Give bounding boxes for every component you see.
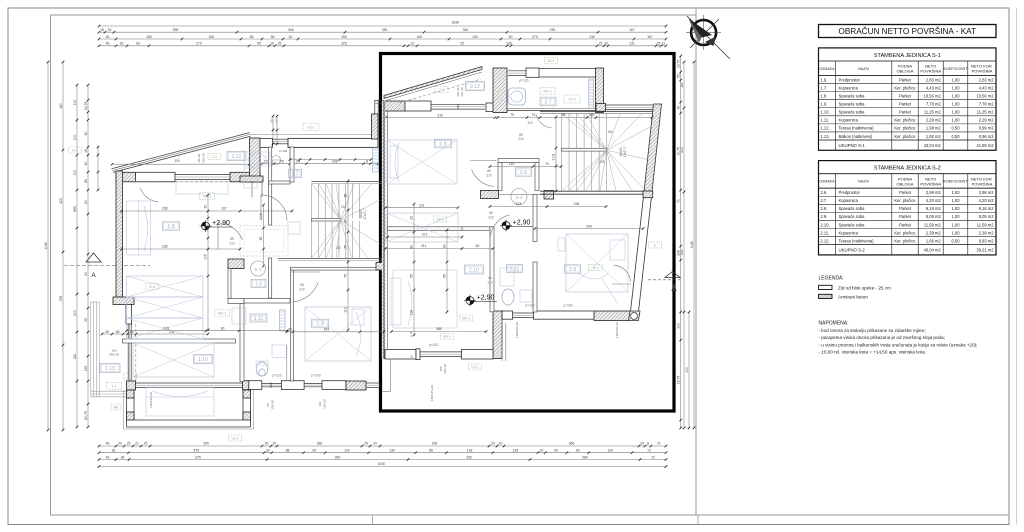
svg-text:254: 254 bbox=[586, 224, 592, 228]
svg-text:Parket: Parket bbox=[899, 110, 912, 115]
svg-text:1.8: 1.8 bbox=[167, 224, 174, 230]
svg-text:206: 206 bbox=[332, 160, 338, 164]
svg-text:60: 60 bbox=[554, 449, 558, 453]
svg-text:Zid od blok opeke - 25 cm: Zid od blok opeke - 25 cm bbox=[838, 285, 891, 290]
svg-text:VZ-1: VZ-1 bbox=[547, 59, 554, 63]
svg-text:21: 21 bbox=[135, 442, 139, 446]
svg-text:105: 105 bbox=[204, 254, 208, 260]
svg-text:4,43 m2: 4,43 m2 bbox=[979, 85, 995, 90]
svg-text:2,03: 2,03 bbox=[552, 154, 556, 161]
svg-text:Terasa (natkrivena): Terasa (natkrivena) bbox=[839, 238, 875, 243]
svg-text:2,83 m2: 2,83 m2 bbox=[926, 77, 942, 82]
svg-text:4,20 m2: 4,20 m2 bbox=[926, 198, 942, 203]
svg-text:- kod otvora za stolariju pri: - kod otvora za stolariju prikazane su z… bbox=[819, 328, 926, 333]
svg-text:85: 85 bbox=[84, 179, 88, 183]
svg-text:10: 10 bbox=[411, 42, 415, 46]
svg-text:85: 85 bbox=[487, 169, 491, 173]
svg-text:155: 155 bbox=[84, 366, 88, 372]
svg-text:100+20: 100+20 bbox=[271, 400, 275, 410]
svg-text:10: 10 bbox=[604, 42, 608, 46]
svg-text:230: 230 bbox=[550, 28, 556, 32]
svg-text:81: 81 bbox=[112, 449, 116, 453]
svg-text:395: 395 bbox=[173, 28, 179, 32]
svg-text:Predprostor: Predprostor bbox=[839, 190, 861, 195]
svg-text:- parapetna visina otvora pri: - parapetna visina otvora prikazana je o… bbox=[819, 335, 945, 340]
svg-text:25: 25 bbox=[84, 318, 88, 322]
svg-text:271: 271 bbox=[422, 233, 428, 237]
svg-text:25: 25 bbox=[265, 442, 269, 446]
svg-text:120/135+20: 120/135+20 bbox=[515, 322, 519, 338]
svg-text:1,00: 1,00 bbox=[952, 93, 961, 98]
svg-text:0,83 m2: 0,83 m2 bbox=[979, 238, 995, 243]
svg-text:STAMBENA JEDINICA S-2: STAMBENA JEDINICA S-2 bbox=[874, 166, 941, 172]
svg-text:1.13: 1.13 bbox=[105, 366, 115, 372]
svg-text:90: 90 bbox=[221, 326, 225, 330]
svg-text:1,00: 1,00 bbox=[952, 110, 961, 115]
svg-text:85: 85 bbox=[230, 237, 234, 241]
svg-text:115: 115 bbox=[509, 162, 515, 166]
svg-text:2.6: 2.6 bbox=[520, 170, 527, 176]
svg-text:1.11.: 1.11. bbox=[821, 118, 830, 123]
svg-text:1.9.: 1.9. bbox=[821, 102, 828, 107]
svg-text:2.7.: 2.7. bbox=[821, 198, 828, 203]
svg-text:p=100: p=100 bbox=[429, 343, 438, 347]
svg-text:10,75: 10,75 bbox=[677, 147, 681, 156]
svg-text:Kupaonica: Kupaonica bbox=[839, 118, 859, 123]
svg-text:80: 80 bbox=[84, 132, 88, 136]
svg-text:+2,90: +2,90 bbox=[477, 295, 495, 302]
svg-text:M-1: M-1 bbox=[593, 266, 599, 270]
svg-text:25: 25 bbox=[144, 442, 148, 446]
svg-text:125: 125 bbox=[512, 449, 518, 453]
svg-text:895: 895 bbox=[73, 206, 77, 212]
svg-text:55: 55 bbox=[410, 274, 414, 278]
svg-text:60: 60 bbox=[84, 162, 88, 166]
svg-text:Ker. pločice: Ker. pločice bbox=[894, 238, 916, 243]
svg-text:390: 390 bbox=[335, 455, 341, 459]
svg-text:210: 210 bbox=[518, 137, 524, 141]
svg-text:2.11: 2.11 bbox=[510, 267, 520, 273]
svg-text:p=100: p=100 bbox=[312, 374, 321, 378]
svg-text:26: 26 bbox=[105, 330, 109, 334]
svg-text:1.12: 1.12 bbox=[231, 154, 241, 160]
svg-text:80: 80 bbox=[266, 403, 270, 407]
svg-text:366: 366 bbox=[317, 442, 323, 446]
svg-text:128: 128 bbox=[467, 449, 473, 453]
svg-text:11,25 m2: 11,25 m2 bbox=[977, 110, 994, 115]
svg-text:ST-2: ST-2 bbox=[568, 98, 575, 102]
svg-text:230: 230 bbox=[336, 246, 342, 250]
svg-text:71: 71 bbox=[677, 199, 681, 203]
svg-text:Ker. pločice: Ker. pločice bbox=[894, 118, 916, 123]
svg-text:VZ-1: VZ-1 bbox=[471, 366, 478, 370]
svg-text:UKUPNO S-1: UKUPNO S-1 bbox=[839, 143, 866, 148]
svg-text:KOEFICIJENT: KOEFICIJENT bbox=[944, 180, 969, 184]
svg-text:2.6.: 2.6. bbox=[821, 190, 828, 195]
svg-text:OBLOGA: OBLOGA bbox=[897, 69, 914, 74]
svg-text:211: 211 bbox=[421, 244, 427, 248]
svg-text:238: 238 bbox=[162, 207, 168, 211]
svg-text:10,56 m2: 10,56 m2 bbox=[976, 93, 994, 98]
svg-text:58: 58 bbox=[250, 35, 254, 39]
svg-text:118: 118 bbox=[410, 310, 414, 316]
svg-text:60: 60 bbox=[576, 449, 580, 453]
svg-text:Terasa (natkrivena): Terasa (natkrivena) bbox=[839, 126, 875, 131]
svg-text:STAMBENA JEDINICA S-1: STAMBENA JEDINICA S-1 bbox=[874, 53, 941, 59]
svg-text:MK-2: MK-2 bbox=[543, 90, 551, 94]
svg-text:Ker. pločice: Ker. pločice bbox=[894, 198, 916, 203]
svg-text:1.11: 1.11 bbox=[254, 316, 264, 322]
svg-text:2,98 m2: 2,98 m2 bbox=[926, 190, 942, 195]
svg-text:MK-1: MK-1 bbox=[218, 312, 226, 316]
svg-text:210: 210 bbox=[487, 281, 492, 285]
svg-text:210: 210 bbox=[299, 288, 305, 292]
svg-text:0,99 m2: 0,99 m2 bbox=[979, 126, 995, 131]
svg-text:POVRŠINA: POVRŠINA bbox=[920, 181, 941, 186]
svg-text:Spavaća soba: Spavaća soba bbox=[839, 110, 866, 115]
svg-text:15: 15 bbox=[84, 149, 88, 153]
svg-text:25: 25 bbox=[460, 42, 464, 46]
svg-text:Parket: Parket bbox=[899, 214, 912, 219]
svg-text:41,89 m2: 41,89 m2 bbox=[976, 143, 994, 148]
svg-text:46: 46 bbox=[106, 442, 110, 446]
svg-text:7,78 m2: 7,78 m2 bbox=[979, 102, 995, 107]
svg-text:10,56 m2: 10,56 m2 bbox=[924, 93, 942, 98]
svg-text:4,20 m2: 4,20 m2 bbox=[979, 198, 995, 203]
svg-text:VZ-2: VZ-2 bbox=[436, 218, 443, 222]
svg-text:75: 75 bbox=[344, 274, 348, 278]
svg-text:Kupaonica: Kupaonica bbox=[839, 85, 859, 90]
svg-text:8: 8 bbox=[366, 160, 368, 164]
svg-text:POVRŠINA: POVRŠINA bbox=[972, 69, 993, 74]
svg-text:1.7.: 1.7. bbox=[821, 85, 828, 90]
svg-text:20: 20 bbox=[499, 442, 503, 446]
svg-text:60: 60 bbox=[312, 449, 316, 453]
svg-text:POVRŠINA: POVRŠINA bbox=[972, 181, 993, 186]
svg-text:240+20: 240+20 bbox=[460, 87, 464, 97]
svg-text:395: 395 bbox=[174, 159, 180, 163]
svg-text:100: 100 bbox=[73, 170, 77, 176]
svg-text:72: 72 bbox=[647, 449, 651, 453]
svg-text:135+20: 135+20 bbox=[443, 364, 447, 374]
svg-text:90: 90 bbox=[677, 106, 681, 110]
svg-text:Parket: Parket bbox=[899, 93, 912, 98]
svg-text:1,98 m2: 1,98 m2 bbox=[926, 126, 942, 131]
svg-text:88: 88 bbox=[286, 449, 290, 453]
svg-text:166: 166 bbox=[607, 130, 613, 134]
svg-text:30: 30 bbox=[120, 42, 124, 46]
svg-text:T-1: T-1 bbox=[439, 88, 444, 92]
svg-text:113: 113 bbox=[344, 307, 348, 313]
svg-text:75: 75 bbox=[510, 113, 514, 117]
svg-text:50: 50 bbox=[84, 272, 88, 276]
svg-text:20: 20 bbox=[288, 328, 292, 332]
svg-text:375: 375 bbox=[59, 296, 63, 302]
svg-text:1.6: 1.6 bbox=[255, 282, 262, 288]
svg-text:1638: 1638 bbox=[451, 20, 459, 24]
svg-text:167: 167 bbox=[647, 35, 653, 39]
svg-text:90+20: 90+20 bbox=[197, 154, 201, 163]
svg-text:72: 72 bbox=[657, 442, 661, 446]
svg-text:2.12.: 2.12. bbox=[821, 238, 830, 243]
svg-text:55: 55 bbox=[677, 74, 681, 78]
svg-text:Parket: Parket bbox=[899, 206, 912, 211]
svg-text:270: 270 bbox=[196, 42, 202, 46]
svg-text:380: 380 bbox=[582, 455, 588, 459]
svg-text:MK-1: MK-1 bbox=[203, 195, 211, 199]
svg-text:180: 180 bbox=[59, 103, 63, 109]
svg-text:p=120: p=120 bbox=[526, 304, 535, 308]
svg-text:UKUPNO S-2: UKUPNO S-2 bbox=[839, 248, 866, 253]
svg-text:2.12: 2.12 bbox=[470, 84, 480, 90]
svg-text:120/135+20: 120/135+20 bbox=[615, 322, 619, 338]
svg-text:Kupaonica: Kupaonica bbox=[839, 198, 859, 203]
svg-text:11,59 m2: 11,59 m2 bbox=[977, 222, 994, 227]
svg-text:100: 100 bbox=[677, 323, 681, 329]
svg-text:16,75: 16,75 bbox=[677, 60, 681, 69]
svg-text:OZNAKA: OZNAKA bbox=[819, 67, 835, 71]
svg-text:80: 80 bbox=[443, 244, 447, 248]
svg-text:1.10.: 1.10. bbox=[821, 110, 830, 115]
svg-text:POVRŠINA: POVRŠINA bbox=[920, 69, 941, 74]
svg-text:2,83 m2: 2,83 m2 bbox=[979, 77, 995, 82]
svg-text:Parket: Parket bbox=[899, 77, 912, 82]
svg-text:25: 25 bbox=[491, 442, 495, 446]
svg-text:36: 36 bbox=[121, 455, 125, 459]
svg-text:340: 340 bbox=[463, 28, 469, 32]
svg-text:8,05 m2: 8,05 m2 bbox=[979, 214, 995, 219]
svg-text:180: 180 bbox=[680, 82, 684, 88]
svg-text:120: 120 bbox=[344, 449, 350, 453]
svg-text:IZ-1: IZ-1 bbox=[72, 149, 78, 153]
svg-text:1.9: 1.9 bbox=[316, 322, 323, 328]
svg-text:25: 25 bbox=[657, 42, 661, 46]
svg-text:74: 74 bbox=[532, 113, 536, 117]
svg-text:120: 120 bbox=[607, 449, 613, 453]
svg-text:180: 180 bbox=[146, 35, 152, 39]
svg-text:230+20: 230+20 bbox=[109, 353, 119, 357]
svg-text:MK: MK bbox=[113, 406, 119, 410]
svg-text:60: 60 bbox=[275, 119, 279, 123]
svg-text:NR-1: NR-1 bbox=[443, 335, 451, 339]
svg-text:17x27,7: 17x27,7 bbox=[363, 208, 367, 220]
svg-text:Ker. pločice: Ker. pločice bbox=[894, 85, 916, 90]
svg-text:Spavaća soba: Spavaća soba bbox=[839, 214, 866, 219]
svg-text:8,05 m2: 8,05 m2 bbox=[926, 214, 942, 219]
svg-text:210: 210 bbox=[229, 242, 235, 246]
svg-text:270: 270 bbox=[532, 35, 538, 39]
svg-text:+2,90: +2,90 bbox=[212, 220, 230, 227]
svg-text:NAPOMENA:: NAPOMENA: bbox=[819, 321, 849, 327]
svg-text:236: 236 bbox=[599, 160, 605, 164]
svg-text:2.7: 2.7 bbox=[544, 100, 551, 106]
svg-text:7,78 m2: 7,78 m2 bbox=[926, 102, 942, 107]
svg-text:123: 123 bbox=[516, 202, 522, 206]
svg-text:310: 310 bbox=[437, 113, 443, 117]
svg-text:1.10: 1.10 bbox=[198, 357, 208, 363]
svg-text:60: 60 bbox=[136, 42, 140, 46]
svg-text:120: 120 bbox=[318, 401, 322, 406]
svg-text:75: 75 bbox=[344, 245, 348, 249]
svg-text:375: 375 bbox=[193, 449, 199, 453]
svg-text:1,00: 1,00 bbox=[952, 77, 961, 82]
svg-text:238: 238 bbox=[162, 245, 168, 249]
svg-text:85: 85 bbox=[429, 449, 433, 453]
svg-text:135+20: 135+20 bbox=[323, 399, 327, 409]
svg-text:310: 310 bbox=[527, 121, 533, 125]
svg-text:325: 325 bbox=[341, 42, 347, 46]
svg-text:1145: 1145 bbox=[44, 242, 48, 249]
svg-text:11: 11 bbox=[662, 42, 666, 46]
svg-text:Kupaonica: Kupaonica bbox=[839, 230, 859, 235]
svg-text:LEGENDA:: LEGENDA: bbox=[819, 276, 844, 282]
svg-text:4,43 m2: 4,43 m2 bbox=[926, 85, 942, 90]
svg-text:210: 210 bbox=[486, 174, 492, 178]
svg-text:Ker. pločice: Ker. pločice bbox=[894, 134, 916, 139]
svg-text:20: 20 bbox=[540, 449, 544, 453]
svg-text:MK-1: MK-1 bbox=[462, 317, 470, 321]
svg-text:2.8.: 2.8. bbox=[821, 206, 828, 211]
svg-text:166: 166 bbox=[589, 113, 595, 117]
svg-text:55: 55 bbox=[443, 274, 447, 278]
svg-text:p=120: p=120 bbox=[520, 79, 529, 83]
svg-text:46: 46 bbox=[106, 35, 110, 39]
svg-text:NAZIV: NAZIV bbox=[858, 180, 869, 184]
svg-text:+2,90: +2,90 bbox=[513, 220, 531, 227]
svg-text:15: 15 bbox=[272, 442, 276, 446]
svg-text:9,16 m2: 9,16 m2 bbox=[979, 206, 995, 211]
svg-text:- u visinu prozora i balkonsk: - u visinu prozora i balkonskih vrata ur… bbox=[819, 342, 978, 347]
svg-text:VZ-1: VZ-1 bbox=[231, 437, 238, 441]
svg-text:25: 25 bbox=[410, 216, 414, 220]
svg-text:2.10: 2.10 bbox=[469, 268, 479, 274]
svg-text:39,21 m2: 39,21 m2 bbox=[976, 248, 994, 253]
svg-text:330: 330 bbox=[382, 28, 388, 32]
svg-text:55: 55 bbox=[257, 42, 261, 46]
svg-text:328: 328 bbox=[677, 250, 681, 256]
svg-text:Spavaća soba: Spavaća soba bbox=[839, 222, 866, 227]
svg-text:140: 140 bbox=[472, 35, 478, 39]
svg-text:65: 65 bbox=[488, 276, 492, 280]
svg-text:160: 160 bbox=[209, 35, 215, 39]
svg-text:250: 250 bbox=[341, 35, 347, 39]
svg-text:11,25 m2: 11,25 m2 bbox=[924, 110, 941, 115]
svg-text:S-1: S-1 bbox=[254, 267, 262, 272]
svg-text:2.8: 2.8 bbox=[439, 142, 446, 148]
svg-text:1,00: 1,00 bbox=[952, 85, 961, 90]
svg-text:43,04 m2: 43,04 m2 bbox=[924, 143, 942, 148]
svg-text:296: 296 bbox=[432, 442, 438, 446]
svg-text:20: 20 bbox=[118, 442, 122, 446]
svg-text:245: 245 bbox=[506, 42, 512, 46]
svg-text:p=100: p=100 bbox=[564, 304, 573, 308]
svg-text:2,39 m2: 2,39 m2 bbox=[926, 230, 942, 235]
svg-text:1.8.: 1.8. bbox=[821, 93, 828, 98]
svg-text:25: 25 bbox=[278, 42, 282, 46]
svg-text:2.10.: 2.10. bbox=[821, 222, 830, 227]
svg-text:180/135+20: 180/135+20 bbox=[430, 385, 434, 401]
svg-text:50: 50 bbox=[204, 205, 208, 209]
svg-text:210: 210 bbox=[488, 216, 494, 220]
svg-text:40: 40 bbox=[289, 35, 293, 39]
svg-text:20: 20 bbox=[410, 355, 414, 359]
svg-text:1,18: 1,18 bbox=[409, 331, 413, 337]
svg-text:T-1: T-1 bbox=[112, 385, 117, 389]
svg-text:100: 100 bbox=[73, 135, 77, 141]
svg-text:230+20: 230+20 bbox=[202, 153, 206, 163]
svg-text:Parket: Parket bbox=[899, 102, 912, 107]
svg-text:55: 55 bbox=[130, 330, 134, 334]
svg-text:0,50: 0,50 bbox=[952, 126, 961, 131]
svg-text:T-1: T-1 bbox=[212, 155, 217, 159]
svg-text:325: 325 bbox=[59, 198, 63, 204]
svg-text:2,29 m2: 2,29 m2 bbox=[979, 118, 995, 123]
svg-text:130: 130 bbox=[389, 449, 395, 453]
svg-text:85: 85 bbox=[204, 226, 208, 230]
svg-text:70: 70 bbox=[545, 162, 549, 166]
svg-text:26: 26 bbox=[108, 28, 112, 32]
svg-text:243: 243 bbox=[324, 328, 330, 332]
svg-text:1,66 m2: 1,66 m2 bbox=[926, 238, 942, 243]
svg-text:56: 56 bbox=[271, 35, 275, 39]
svg-text:120/135+20: 120/135+20 bbox=[149, 392, 153, 408]
svg-text:385: 385 bbox=[436, 327, 442, 331]
svg-text:85: 85 bbox=[344, 194, 348, 198]
svg-text:1638: 1638 bbox=[377, 462, 385, 466]
svg-text:1,00: 1,00 bbox=[952, 102, 961, 107]
svg-text:85: 85 bbox=[259, 237, 263, 241]
svg-text:25: 25 bbox=[599, 42, 603, 46]
svg-text:46: 46 bbox=[106, 455, 110, 459]
svg-text:OZNAKA: OZNAKA bbox=[819, 180, 835, 184]
svg-text:S-2: S-2 bbox=[515, 195, 523, 200]
svg-text:160: 160 bbox=[417, 35, 423, 39]
svg-text:16,75: 16,75 bbox=[84, 102, 88, 111]
svg-text:375: 375 bbox=[195, 455, 201, 459]
svg-text:40,04 m2: 40,04 m2 bbox=[924, 248, 942, 253]
svg-text:Parket: Parket bbox=[899, 222, 912, 227]
svg-text:211: 211 bbox=[419, 203, 425, 207]
svg-text:80,75: 80,75 bbox=[84, 411, 88, 420]
svg-text:25: 25 bbox=[640, 442, 644, 446]
svg-text:99: 99 bbox=[562, 113, 566, 117]
svg-text:167: 167 bbox=[629, 28, 635, 32]
svg-text:1,00: 1,00 bbox=[952, 206, 961, 211]
svg-text:20: 20 bbox=[266, 449, 270, 453]
svg-text:72: 72 bbox=[651, 455, 655, 459]
svg-text:55: 55 bbox=[116, 330, 120, 334]
svg-text:1.12.: 1.12. bbox=[821, 126, 830, 131]
svg-text:p=128: p=128 bbox=[279, 149, 288, 153]
svg-text:1,00: 1,00 bbox=[952, 198, 961, 203]
svg-text:35: 35 bbox=[344, 219, 348, 223]
svg-text:IZ-4: IZ-4 bbox=[149, 285, 155, 289]
svg-text:Balkon (natkriveni): Balkon (natkriveni) bbox=[839, 134, 874, 139]
svg-text:A: A bbox=[91, 272, 96, 279]
svg-text:1145: 1145 bbox=[690, 241, 694, 248]
svg-text:Spavaća soba: Spavaća soba bbox=[839, 93, 866, 98]
svg-text:15: 15 bbox=[100, 28, 104, 32]
svg-text:17x27,7: 17x27,7 bbox=[623, 146, 627, 158]
svg-text:16: 16 bbox=[270, 42, 274, 46]
svg-text:330: 330 bbox=[466, 455, 472, 459]
svg-text:236: 236 bbox=[574, 202, 580, 206]
svg-text:20: 20 bbox=[373, 442, 377, 446]
svg-text:305: 305 bbox=[203, 442, 209, 446]
svg-text:0,96 m2: 0,96 m2 bbox=[979, 134, 995, 139]
svg-text:194: 194 bbox=[341, 205, 347, 209]
svg-text:11,59 m2: 11,59 m2 bbox=[924, 222, 941, 227]
